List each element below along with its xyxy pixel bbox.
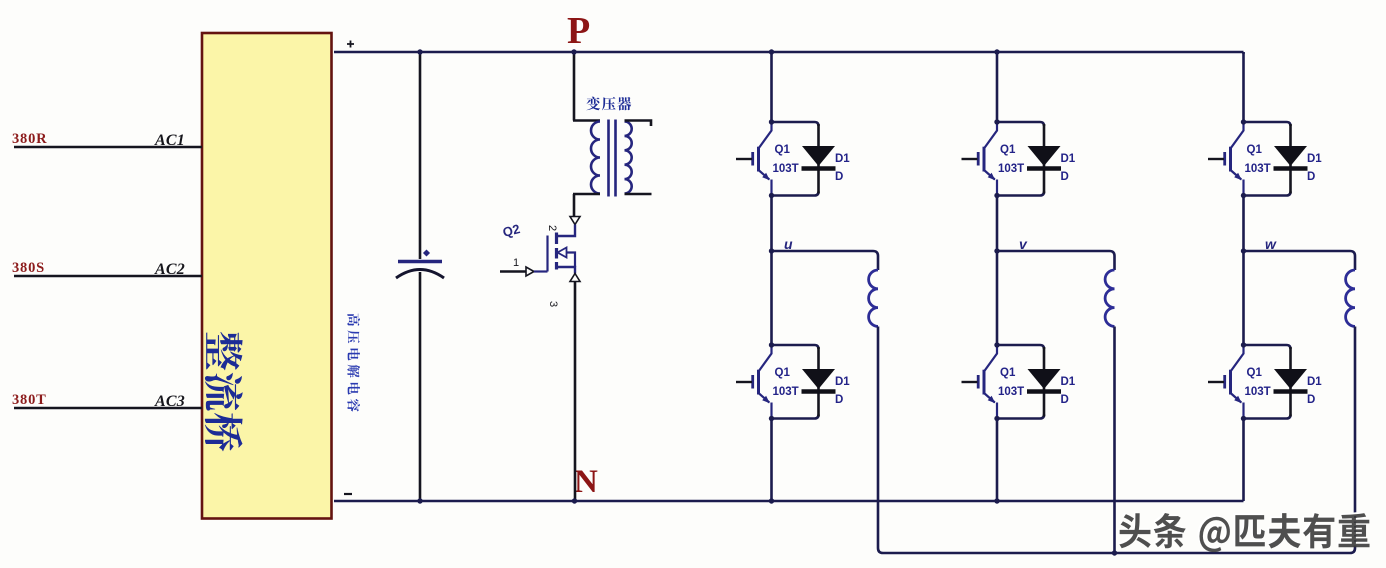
- svg-text:D: D: [835, 171, 843, 183]
- wire P rail to capacitor C1: [419, 52, 422, 259]
- wire AC input line 2: [14, 275, 202, 277]
- wire leg V: lower cell to N rail: [996, 419, 999, 502]
- svg-text:AC3: AC3: [154, 393, 185, 410]
- transformer T1 secondary winding: [625, 122, 632, 194]
- wire inductor LW to bottom bus: [1350, 327, 1355, 554]
- transistor Q6 (IGBT, W lower): [1208, 345, 1244, 419]
- node u: [769, 248, 774, 253]
- junction dots cell (V upper): [994, 119, 999, 124]
- junction dots cell (U lower): [769, 342, 774, 347]
- svg-text:AC1: AC1: [154, 132, 185, 149]
- svg-text:103T: 103T: [773, 163, 799, 175]
- wire cell top branch (V upper): [997, 122, 1044, 126]
- svg-text:Q1: Q1: [1000, 144, 1016, 156]
- wire cell bottom branch (V upper): [997, 192, 1044, 196]
- capacitor C1 negative curved plate: [396, 270, 444, 279]
- svg-text:Q1: Q1: [775, 367, 791, 379]
- wire cell top branch (W lower): [1244, 345, 1291, 349]
- wire cell bottom branch (V lower): [997, 415, 1044, 419]
- transistor Q2 (IGBT, V upper): [962, 122, 998, 196]
- wire leg W: upper cell to node w and to lower cell: [1242, 196, 1245, 346]
- wire leg V: upper cell to node v and to lower cell: [996, 196, 999, 346]
- diode D3 (freewheel, W upper): [1274, 124, 1308, 194]
- svg-text:380R: 380R: [12, 131, 47, 147]
- svg-text:103T: 103T: [1245, 163, 1271, 175]
- wire inductor LV to bottom bus: [1113, 327, 1116, 554]
- wire cell bottom branch (U lower): [772, 415, 819, 419]
- wire AC input line 3: [14, 407, 202, 409]
- inductor LV (phase v): [1105, 270, 1114, 326]
- wire leg W: lower cell to N rail: [1242, 419, 1245, 502]
- wire leg W: P rail to upper cell: [1242, 52, 1245, 122]
- wire leg U: P rail to upper cell: [770, 52, 773, 122]
- transistor Q2 (MOSFET) drain lead: [557, 225, 576, 237]
- svg-text:3: 3: [547, 301, 559, 307]
- wire leg U: upper cell to node u and to lower cell: [770, 196, 773, 346]
- svg-text:2: 2: [546, 225, 558, 231]
- diode D6 (freewheel, W lower): [1274, 347, 1308, 417]
- svg-text:Q1: Q1: [775, 144, 791, 156]
- transistor Q2 body arrow: [558, 248, 567, 258]
- label 变压器 (transformer): [586, 97, 600, 111]
- svg-text:103T: 103T: [1245, 386, 1271, 398]
- pin arrow into Q2 drain: [570, 217, 580, 225]
- diode D1 (freewheel, U upper): [802, 124, 836, 194]
- pin arrow out of Q2 source: [570, 274, 580, 282]
- wire node u to inductor LU: [772, 251, 879, 270]
- transistor Q2 gate bar: [546, 236, 548, 272]
- svg-text:D1: D1: [1307, 153, 1322, 165]
- wire capacitor C1 to N rail: [419, 272, 422, 501]
- svg-text:380S: 380S: [12, 260, 45, 276]
- label 整流桥 (rectifier bridge), vertical: [205, 332, 243, 451]
- svg-text:380T: 380T: [12, 392, 47, 408]
- junction dots cell (V lower): [994, 342, 999, 347]
- svg-text:AC2: AC2: [154, 261, 185, 278]
- transistor Q3 (IGBT, W upper): [1208, 122, 1244, 196]
- wire cell top branch (U lower): [772, 345, 819, 349]
- polarity mark + at rectifier output: [347, 41, 354, 48]
- polarity mark - at rectifier output: [344, 493, 352, 495]
- svg-text:D: D: [835, 394, 843, 406]
- wire inductor LU to bottom bus: [878, 327, 883, 554]
- svg-text:D1: D1: [1061, 153, 1076, 165]
- transistor Q1 (IGBT, U upper): [736, 122, 772, 196]
- transformer T1 primary winding: [591, 122, 600, 194]
- transformer T1 secondary bottom stub: [625, 193, 652, 196]
- svg-text:D1: D1: [835, 376, 850, 388]
- transistor Q5 (IGBT, V lower): [962, 345, 998, 419]
- wire node v to inductor LV: [997, 251, 1115, 270]
- transformer T1 primary top stub: [573, 119, 600, 122]
- rectifier bridge block (整流桥): [202, 33, 332, 519]
- transistor Q2 source lead: [557, 267, 576, 274]
- wire node w to inductor LW: [1244, 251, 1356, 270]
- wire MOSFET Q2 source to N rail: [574, 282, 577, 502]
- junction dots cell (U upper): [769, 119, 774, 124]
- svg-text:v: v: [1019, 236, 1028, 252]
- wire leg V: P rail to upper cell: [996, 52, 999, 122]
- wire cell bottom branch (W lower): [1244, 415, 1291, 419]
- wire bottom bus joining phase outputs: [883, 552, 1350, 555]
- svg-text:103T: 103T: [998, 163, 1024, 175]
- capacitor C1 (electrolytic, positive plate): [398, 260, 442, 263]
- wire cell bottom branch (U upper): [772, 192, 819, 196]
- pin arrow into Q2 gate: [526, 267, 534, 276]
- transformer T1 secondary top stub: [625, 121, 652, 127]
- wire cell bottom branch (W upper): [1244, 192, 1291, 196]
- node w: [1241, 248, 1246, 253]
- diode D2 (freewheel, V upper): [1027, 124, 1061, 194]
- transformer T1 primary bottom stub: [573, 193, 600, 196]
- svg-text:103T: 103T: [773, 386, 799, 398]
- wire cell top branch (W upper): [1244, 122, 1291, 126]
- wire P rail down to transformer T1: [573, 52, 576, 121]
- svg-text:103T: 103T: [998, 386, 1024, 398]
- wire transformer T1 to MOSFET Q2 drain: [573, 194, 576, 216]
- svg-text:D: D: [1307, 171, 1315, 183]
- svg-text:D: D: [1307, 394, 1315, 406]
- wire P rail corner into leg W: [1242, 52, 1245, 54]
- junction dots cell (W lower): [1241, 342, 1246, 347]
- watermark 头条 @匹夫有重: [1117, 511, 1369, 552]
- junction dots cell (W upper): [1241, 119, 1246, 124]
- wire AC input line 1: [14, 146, 202, 148]
- svg-text:Q1: Q1: [1247, 367, 1263, 379]
- node N (negative DC rail): [334, 500, 1244, 503]
- transformer T1 core: [609, 120, 616, 197]
- transistor Q4 (IGBT, U lower): [736, 345, 772, 419]
- svg-text:Q1: Q1: [1247, 144, 1263, 156]
- wire cell top branch (U upper): [772, 122, 819, 126]
- node v: [994, 248, 999, 253]
- diode D5 (freewheel, V lower): [1027, 347, 1061, 417]
- svg-text:D1: D1: [1061, 376, 1076, 388]
- svg-text:D1: D1: [1307, 376, 1322, 388]
- wire cell top branch (V lower): [997, 345, 1044, 349]
- inductor LU (phase u): [869, 270, 878, 326]
- inductor LW (phase w): [1346, 270, 1355, 326]
- svg-text:Q1: Q1: [1000, 367, 1016, 379]
- svg-text:P: P: [567, 10, 590, 52]
- wire leg U: lower cell to N rail: [770, 419, 773, 502]
- node P (positive DC rail): [334, 51, 1244, 54]
- svg-text:D: D: [1061, 394, 1069, 406]
- svg-text:1: 1: [513, 257, 519, 269]
- label 高压电解电容 (HV electrolytic capacitor), vertical: [347, 314, 360, 412]
- svg-text:D: D: [1061, 171, 1069, 183]
- svg-text:w: w: [1265, 236, 1277, 252]
- svg-text:D1: D1: [835, 153, 850, 165]
- transistor Q2 channel bar: [555, 233, 558, 270]
- polarity + dot of C1: [423, 249, 430, 256]
- diode D4 (freewheel, U lower): [802, 347, 836, 417]
- wire gate lead into Q2: [500, 270, 526, 272]
- svg-text:N: N: [574, 464, 598, 500]
- svg-text:u: u: [784, 236, 793, 252]
